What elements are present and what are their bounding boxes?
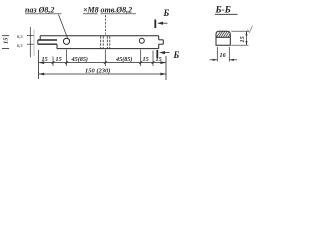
overall left arrowhead <box>39 73 45 76</box>
svg-text:15: 15 <box>156 56 162 63</box>
left tab end <box>37 40 39 44</box>
svg-text:15: 15 <box>56 56 62 63</box>
svg-text:паз Ø8,2: паз Ø8,2 <box>25 6 54 15</box>
bar left edge upper <box>39 36 41 40</box>
section width ext left <box>216 47 218 62</box>
overall dimension line <box>39 73 166 75</box>
hidden M8 hole line 4 <box>109 36 111 48</box>
left height dim tick bottom <box>2 48 9 50</box>
section height arrow down <box>246 41 248 45</box>
hidden M8 hole line 3 <box>106 36 108 48</box>
chain extension x105.3 <box>104 50 106 67</box>
left dim tick lower <box>27 43 34 45</box>
left extension vertical long <box>29 27 31 58</box>
section B-B outline <box>216 31 230 45</box>
chain tick x105.3 <box>104 61 107 64</box>
section view arrow top <box>157 22 167 25</box>
left extension vertical short <box>33 30 35 57</box>
roughness mark <box>248 26 253 33</box>
bar right edge lower <box>158 44 160 48</box>
svg-text:15: 15 <box>239 36 246 42</box>
section cut thick tick bottom <box>156 50 158 58</box>
overall right arrowhead <box>160 73 166 76</box>
chain extension x38.6 <box>38 50 40 79</box>
label Б-Б underline <box>215 13 238 15</box>
chain extension x166 <box>165 56 167 80</box>
section dim ext bottom right <box>231 44 248 46</box>
svg-text:45(85): 45(85) <box>115 56 133 63</box>
hidden M8 hole line 1 <box>100 36 102 48</box>
chain tick x53 <box>52 61 55 64</box>
svg-text:45(85): 45(85) <box>71 56 89 63</box>
chain tick x66.5 <box>65 61 68 64</box>
svg-text:16: 16 <box>220 52 227 59</box>
section width arrow left <box>213 59 218 61</box>
section B-B inner line <box>216 36 230 38</box>
svg-text:15: 15 <box>143 56 149 63</box>
left tab bottom <box>38 43 57 45</box>
svg-text:Б: Б <box>163 8 170 18</box>
chain extension x153 <box>152 51 154 67</box>
svg-text:×М8: ×М8 <box>83 6 99 15</box>
slot hole circle <box>63 38 69 44</box>
label отв underline <box>101 13 137 15</box>
label M8 underline <box>83 13 98 15</box>
svg-text:Б: Б <box>173 50 180 60</box>
right hole circle <box>139 38 144 43</box>
svg-text:6,5: 6,5 <box>17 34 23 39</box>
chain left arrowhead <box>39 61 45 64</box>
chain dimension line <box>39 62 166 64</box>
left height dim tick top <box>2 35 9 37</box>
section width dim line left <box>210 59 218 61</box>
bar bottom edge <box>57 48 159 50</box>
svg-text:150 (230): 150 (230) <box>85 68 110 75</box>
bar top edge <box>40 35 159 37</box>
chain right arrowhead <box>160 61 166 64</box>
svg-text:Б-Б: Б-Б <box>215 6 231 16</box>
svg-text:15: 15 <box>3 37 10 44</box>
svg-text:15: 15 <box>42 56 48 63</box>
leader line slot label <box>59 15 68 39</box>
svg-text:отв.Ø8,2: отв.Ø8,2 <box>101 6 133 15</box>
right tab top <box>159 39 164 41</box>
section height dim line <box>246 31 248 45</box>
section view arrow bottom <box>159 51 169 54</box>
section width arrow right <box>229 59 234 61</box>
leader line M8 label (dashed vertical) <box>105 15 107 35</box>
chain extension x53 <box>52 57 54 67</box>
section B-B hatching <box>216 31 230 37</box>
hidden M8 hole line 2 <box>102 36 104 48</box>
step below left tab <box>56 44 58 48</box>
right tab bottom <box>159 43 164 45</box>
right tab end <box>162 40 164 44</box>
chain extension x140.7 <box>140 50 142 67</box>
chain tick x153 <box>152 61 155 64</box>
left dim tick upper <box>27 35 34 37</box>
svg-text:6,5: 6,5 <box>17 43 23 48</box>
section height arrow up <box>246 31 248 35</box>
chain tick x140.7 <box>139 61 142 64</box>
section cut thick tick top <box>154 20 156 29</box>
section width dim line right <box>229 59 237 61</box>
bar right edge upper <box>158 36 160 40</box>
section width ext right <box>228 47 230 62</box>
chain extension x66.5 <box>66 50 68 67</box>
label паз underline <box>25 13 62 15</box>
left tab top <box>38 39 57 41</box>
section dim ext top right <box>231 30 248 32</box>
